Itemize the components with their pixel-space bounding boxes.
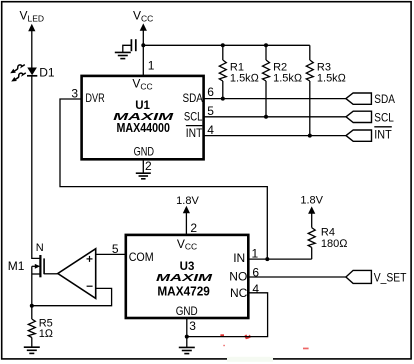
wire op-amp output to M1 gate bbox=[44, 273, 59, 275]
wire U1 VCC pin 1 stub bbox=[142, 45, 144, 76]
svg-text:SDA: SDA bbox=[374, 92, 395, 106]
svg-text:3: 3 bbox=[71, 87, 78, 101]
wire capacitor to ground bbox=[123, 45, 132, 52]
ground (U1) bbox=[136, 173, 151, 179]
IC U1 MAX44000 box bbox=[82, 76, 204, 159]
junction dot feedback node bbox=[30, 304, 34, 308]
svg-text:3: 3 bbox=[189, 319, 196, 333]
svg-text:1.5kΩ: 1.5kΩ bbox=[273, 72, 303, 84]
svg-text:INT: INT bbox=[186, 126, 203, 140]
IC U3 MAX4729 box bbox=[126, 235, 249, 318]
svg-text:6: 6 bbox=[207, 85, 214, 99]
resistor R4 bbox=[308, 213, 315, 260]
svg-text:GND: GND bbox=[134, 144, 155, 158]
svg-text:MAXIM: MAXIM bbox=[156, 272, 212, 284]
junction dot R3/INT bbox=[308, 134, 312, 138]
wire INT (U1 pin 4) bbox=[204, 135, 346, 137]
wire VCC bus to pull-up resistors bbox=[143, 44, 309, 46]
svg-text:MAX4729: MAX4729 bbox=[157, 284, 210, 298]
svg-text:1.5kΩ: 1.5kΩ bbox=[230, 72, 260, 84]
svg-text:4: 4 bbox=[207, 123, 214, 137]
junction dot R1 top bbox=[221, 43, 225, 47]
svg-text:SDA: SDA bbox=[183, 91, 203, 105]
svg-text:2: 2 bbox=[145, 159, 152, 173]
op-amp (drives M1 gate) bbox=[58, 249, 96, 299]
connector V_SET bbox=[346, 270, 372, 283]
wire U3 NC pin 4 to ground node bbox=[187, 293, 268, 337]
power arrow 1.8V (R4) bbox=[308, 206, 315, 213]
bypass capacitor bbox=[131, 39, 135, 51]
wire SCL (U1 pin 5) bbox=[204, 116, 346, 118]
wire VCC arrow to junction bbox=[142, 30, 144, 46]
wire V_LED to D1 anode bbox=[31, 30, 33, 68]
label R5 1ohm bbox=[39, 318, 54, 340]
junction dot R2 top bbox=[264, 43, 268, 47]
svg-text:180Ω: 180Ω bbox=[321, 238, 348, 250]
wire op-amp inverting input feedback to R5 node bbox=[32, 288, 112, 305]
label R2 1.5k bbox=[273, 62, 303, 85]
svg-text:5: 5 bbox=[207, 104, 214, 118]
svg-text:1.5kΩ: 1.5kΩ bbox=[317, 72, 347, 84]
svg-text:DVR: DVR bbox=[85, 91, 105, 105]
svg-text:NC: NC bbox=[230, 286, 248, 300]
svg-text:V_SET: V_SET bbox=[374, 271, 407, 285]
svg-text:SCL: SCL bbox=[374, 110, 394, 124]
wire U1 GND pin 2 stub bbox=[142, 159, 144, 173]
svg-text:SCL: SCL bbox=[184, 109, 203, 123]
connector SDA bbox=[346, 93, 372, 104]
ground (below R5) bbox=[24, 347, 40, 353]
wire 1.8V to U3 VCC pin 2 bbox=[185, 212, 187, 234]
svg-text:MAX44000: MAX44000 bbox=[116, 121, 170, 135]
light emission arrows of D1 bbox=[10, 65, 26, 82]
resistor R1 bbox=[219, 45, 226, 98]
svg-text:R4: R4 bbox=[321, 227, 335, 239]
resistor R2 bbox=[263, 45, 270, 117]
LED D1 bbox=[27, 68, 37, 76]
resistor R3 bbox=[306, 45, 313, 135]
ground (U3) bbox=[179, 347, 195, 353]
svg-text:COM: COM bbox=[129, 250, 154, 264]
svg-text:1: 1 bbox=[148, 58, 155, 72]
junction dot IN node bbox=[265, 257, 269, 261]
svg-text:IN: IN bbox=[233, 251, 245, 265]
svg-text:2: 2 bbox=[190, 221, 197, 235]
svg-text:1.8V: 1.8V bbox=[176, 195, 199, 207]
label R1 1.5k bbox=[230, 62, 260, 85]
svg-text:D1: D1 bbox=[39, 66, 55, 80]
junction dot R2/SCL bbox=[264, 115, 268, 119]
power arrow VCC bbox=[140, 23, 147, 30]
junction dot U3 ground node bbox=[185, 335, 189, 339]
junction dot VCC node bbox=[141, 43, 145, 47]
wire SDA (U1 pin 6) bbox=[204, 98, 346, 100]
connector INT bbox=[346, 130, 372, 141]
svg-text:1.8V: 1.8V bbox=[300, 195, 323, 207]
svg-text:4: 4 bbox=[252, 282, 259, 296]
wire U1 DVR pin 3 to U3 IN node bbox=[60, 99, 267, 259]
wire D1 cathode to M1 drain bbox=[32, 76, 40, 259]
svg-text:NO: NO bbox=[229, 270, 247, 284]
resistor R5 bbox=[28, 319, 35, 338]
svg-text:U3: U3 bbox=[180, 261, 195, 273]
svg-text:6: 6 bbox=[252, 266, 259, 280]
svg-text:1: 1 bbox=[252, 246, 259, 260]
wire U3 IN pin 1 to R4 bbox=[249, 258, 312, 260]
U1 pin name INT (active low) bbox=[186, 126, 203, 140]
svg-text:N: N bbox=[36, 242, 44, 254]
power arrow V_LED bbox=[28, 24, 35, 31]
net label INT (active low) bbox=[374, 127, 392, 142]
svg-text:M1: M1 bbox=[8, 259, 25, 273]
wire R5 to ground bbox=[31, 338, 33, 348]
wire U3 GND pin 3 stub bbox=[186, 318, 188, 348]
wire M1 source/body down to R5 node bbox=[31, 266, 33, 319]
svg-text:GND: GND bbox=[176, 304, 198, 318]
ground (capacitor) bbox=[115, 52, 131, 58]
wire op-amp noninverting input to U3 COM pin 5 bbox=[96, 253, 125, 255]
transistor M1 (n-channel MOSFET) bbox=[32, 255, 44, 277]
label R4 180ohm bbox=[321, 227, 348, 250]
junction dot R1/SDA bbox=[221, 97, 225, 101]
svg-text:1Ω: 1Ω bbox=[39, 328, 54, 340]
label R3 1.5k bbox=[317, 62, 347, 85]
connector SCL bbox=[346, 111, 372, 122]
power arrow 1.8V (U3) bbox=[183, 206, 190, 213]
svg-text:INT: INT bbox=[374, 128, 392, 142]
wire U3 NO pin 6 to V_SET bbox=[249, 276, 346, 278]
svg-text:5: 5 bbox=[112, 242, 119, 256]
